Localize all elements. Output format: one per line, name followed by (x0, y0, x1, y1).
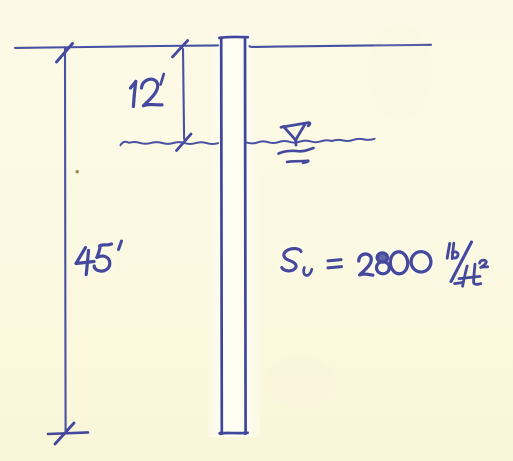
ink blob bottom-right corner of pile (243, 431, 247, 435)
water table dash 2 (287, 161, 308, 163)
water line right segment (247, 139, 375, 144)
ground line right segment (250, 45, 432, 47)
water line left segment (121, 142, 219, 145)
faint pink smudge top right (368, 24, 432, 120)
ground line left segment (15, 45, 218, 48)
digit 0 of 2800 (411, 252, 431, 272)
label Su : subscript u (304, 268, 312, 276)
dimension line 45 ft (64, 49, 67, 432)
digit 8 of 2800 (377, 253, 387, 262)
unit ft : crossbar (459, 276, 480, 278)
scan glow under handwriting (76, 79, 472, 281)
label 45 ft : apostrophe (119, 241, 122, 250)
tick bottom of 45 dim (55, 423, 74, 444)
label 45 ft : digit 4 (76, 248, 94, 264)
label Su : S (282, 249, 301, 271)
unit lb : l (447, 244, 450, 259)
pile P1 (219, 37, 248, 435)
unit ft : t (474, 264, 481, 284)
unit lb : b (452, 243, 458, 258)
fraction slash (451, 242, 472, 282)
tick bottom of 12 dim (177, 134, 192, 151)
tick top of 12 dim (173, 41, 188, 57)
label 45 ft : digit 5 (94, 248, 110, 272)
digit 0 of 2800 (390, 251, 409, 274)
digit 2 of 2800 (359, 254, 373, 275)
label 12 ft : digit 1 (133, 82, 135, 107)
label 12 ft : apostrophe (161, 74, 164, 85)
superscript 2 (480, 260, 488, 267)
unit ft : f (455, 266, 468, 286)
dimension line 12 ft (183, 49, 184, 139)
bottom extension line of 45 dim (48, 432, 88, 434)
water table dash 1 (279, 148, 314, 154)
label 12 ft : digit 2 (142, 79, 163, 106)
ink blob bottom-left corner of pile (219, 431, 223, 435)
paper speck (76, 170, 79, 173)
pale halo and white strip around pile (208, 34, 260, 437)
tick top of 45 dim (57, 44, 73, 63)
faint pink smudge mid bottom (264, 356, 336, 408)
equals sign (328, 260, 341, 261)
water table symbol triangle (281, 123, 310, 145)
